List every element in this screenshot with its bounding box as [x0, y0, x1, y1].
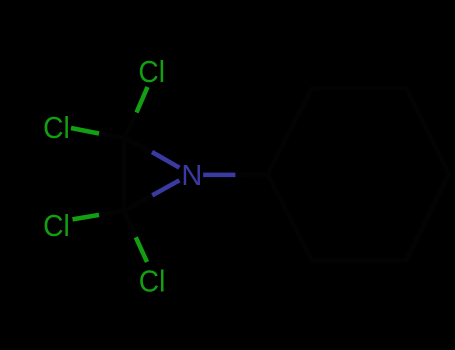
svg-text:Cl: Cl — [43, 209, 70, 244]
svg-text:Cl: Cl — [139, 264, 166, 299]
svg-text:Cl: Cl — [138, 55, 165, 90]
svg-text:N: N — [181, 160, 202, 192]
svg-text:Cl: Cl — [43, 111, 70, 146]
